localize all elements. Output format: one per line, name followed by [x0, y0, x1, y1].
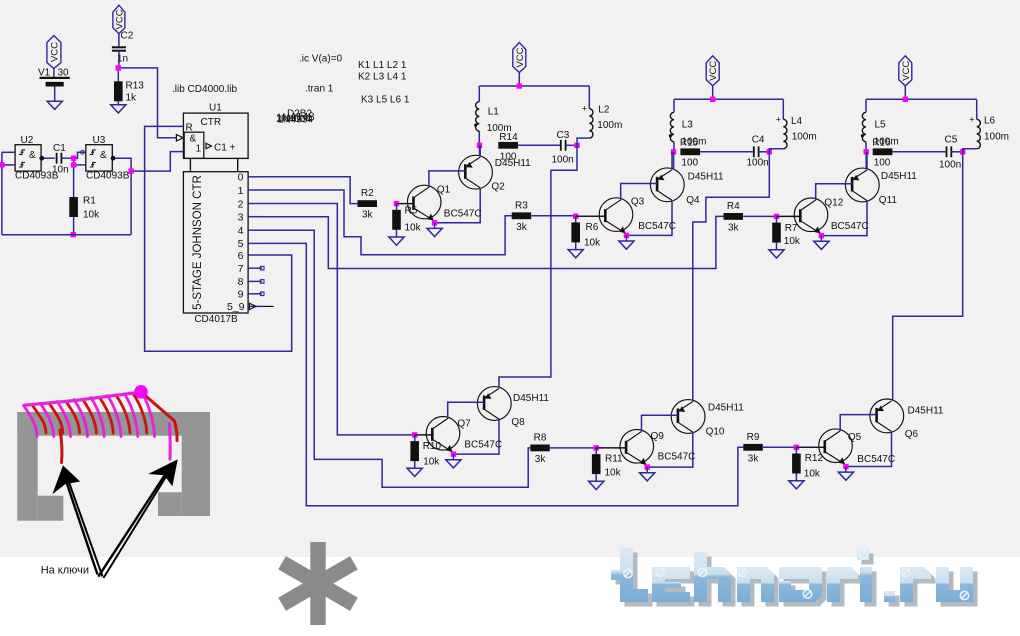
transformer core left foot: [38, 496, 64, 521]
svg-text:3k: 3k: [728, 222, 740, 233]
wire Q7 emitter stub: [452, 453, 454, 455]
resistor R15: [680, 148, 700, 155]
wire Q6 emitter pin: [891, 398, 893, 400]
pin 6 stub of U1: [248, 254, 262, 256]
svg-text:Q9: Q9: [651, 431, 665, 442]
svg-text:L3: L3: [682, 120, 694, 131]
inductor L3: [670, 112, 674, 141]
resistor R3 3k: [512, 212, 532, 219]
terminal square pin 7: [260, 266, 264, 270]
junction L5 bottom: [864, 149, 869, 154]
resistor R14: [498, 142, 518, 149]
wire to R11: [595, 448, 597, 454]
pin 7 stub of U1: [248, 267, 262, 269]
svg-text:D45H11: D45H11: [908, 406, 944, 417]
wire R1 to feedback wire: [73, 217, 75, 235]
wire Q5 emitter stub: [845, 465, 847, 467]
wire Q2 collector to Q1 emitter node: [435, 188, 481, 223]
transistor Q1 BC547C: [397, 185, 442, 221]
wire U3 output node right to clock gate: [131, 152, 184, 172]
winding red end wire: [60, 430, 62, 463]
svg-text:D45H11: D45H11: [881, 171, 917, 182]
resistor R5 10k: [392, 210, 401, 230]
svg-text:C4: C4: [752, 135, 765, 146]
svg-text:3k: 3k: [516, 222, 528, 233]
stubs between counter boxes: [189, 158, 191, 171]
wire pin5 to R9: [262, 243, 743, 505]
wire emitter node to ground: [820, 236, 822, 241]
wire R4 to node: [743, 215, 776, 217]
arrow to left winding end: [63, 471, 98, 575]
svg-text:D45H11: D45H11: [708, 402, 744, 413]
wire pin 5_9 stub: [262, 305, 274, 307]
wire base feed Q12: [777, 215, 801, 217]
capacitor stage 3: [946, 146, 948, 157]
wire emitter node to ground: [646, 467, 648, 472]
wire cap to junction: [759, 151, 770, 153]
svg-text:3k: 3k: [362, 210, 374, 221]
transistor Q9 BC547C: [596, 430, 653, 466]
wire Q6 collector to Q5 emitter node: [846, 432, 892, 467]
svg-text:1k: 1k: [126, 93, 138, 104]
svg-text:VCC: VCC: [708, 61, 719, 81]
svg-text:R9: R9: [747, 432, 760, 443]
wire base feed Q3: [576, 215, 606, 217]
svg-text:+: +: [582, 104, 587, 114]
svg-text:R16: R16: [872, 138, 891, 149]
junction base Q1: [394, 201, 399, 206]
svg-text:Q5: Q5: [848, 432, 862, 443]
svg-text:0: 0: [238, 172, 244, 184]
junction emitter Q9: [645, 464, 650, 469]
wire R6 to ground: [575, 242, 577, 249]
transformer core right column: [182, 412, 210, 516]
VCC flag above C2: [113, 5, 125, 34]
svg-text:3k: 3k: [748, 453, 760, 464]
phase dot L3: [669, 134, 672, 137]
pin 5_9 stub of U1: [248, 305, 262, 307]
wire Q3 emitter stub: [625, 234, 627, 236]
wire U2 output to C1: [41, 157, 55, 159]
wire VCC rail stage 3: [866, 98, 977, 100]
junction base Q12: [774, 214, 779, 219]
svg-text:VCC: VCC: [901, 61, 912, 81]
svg-text:10k: 10k: [605, 467, 622, 478]
junction emitter Q7: [451, 451, 456, 456]
wire R8 to node: [550, 447, 596, 449]
wire R5 to ground: [396, 230, 398, 237]
wire pin1 to R3: [262, 190, 512, 255]
junction emitter Q5: [843, 464, 848, 469]
bubble on U3 input1: [81, 150, 85, 154]
pin 1 stub of U1: [248, 189, 262, 191]
wire L1 junction to Q2 emitter: [479, 145, 481, 155]
inductor L5: [862, 112, 866, 141]
wire L4 to cap junction: [769, 149, 783, 152]
svg-text:9: 9: [238, 289, 244, 301]
wire emitter node to ground: [625, 235, 627, 240]
svg-text:R4: R4: [727, 201, 740, 212]
inductor L1: [476, 102, 480, 131]
resistor R10 10k: [410, 441, 419, 461]
resistor R8 3k: [530, 445, 550, 452]
wire base feed Q9: [596, 447, 626, 449]
resistor R16: [873, 148, 893, 155]
wire rail to L6: [976, 99, 978, 119]
svg-text:.lib CD4000.lib: .lib CD4000.lib: [172, 84, 237, 95]
svg-text:VCC: VCC: [515, 47, 526, 67]
junction cap right stage 2: [767, 149, 772, 154]
resistor R6 10k: [571, 222, 580, 242]
NAND gate U3 CD4093B: [86, 145, 113, 171]
svg-text:10n: 10n: [52, 165, 69, 176]
ground under V1: [47, 101, 62, 109]
wire R12 to ground: [795, 474, 797, 481]
wire L2 to cap junction: [577, 138, 589, 145]
resistor R7 10k: [772, 223, 781, 243]
terminal square pin 8: [260, 280, 264, 284]
svg-text:L2: L2: [598, 105, 610, 116]
VCC flag of V1: [47, 36, 61, 69]
wire Q11 collector to Q12 emitter node: [821, 201, 867, 236]
gray asterisk mark: [278, 542, 358, 625]
svg-text:C5: C5: [945, 135, 958, 146]
svg-text:100m: 100m: [597, 120, 622, 131]
svg-text:100n: 100n: [939, 160, 961, 171]
capacitor stage 1: [560, 140, 562, 151]
wire pin3 to R4: [262, 216, 724, 268]
svg-text:L1: L1: [488, 107, 500, 118]
wire VCC rail stage 1: [479, 85, 589, 87]
winding magenta arcs: [24, 392, 155, 437]
wire R7 to ground: [776, 243, 778, 250]
svg-text:&: &: [100, 150, 107, 161]
svg-text:Q1: Q1: [437, 185, 451, 196]
ground under Q1 emitter: [427, 228, 442, 236]
wire VCC rail stage 2: [674, 98, 783, 100]
watermark shadow: [616, 553, 978, 607]
pin 8 stub of U1: [248, 280, 262, 282]
pin 9 stub of U1: [248, 293, 262, 295]
resistor R1: [69, 197, 78, 217]
wire U3 output: [112, 158, 131, 171]
ground under R6: [568, 250, 583, 258]
junction emitter Q3: [624, 233, 629, 238]
wire L5 to junction: [865, 142, 867, 152]
junction emitter Q12: [819, 233, 824, 238]
junction U3 output node: [128, 168, 133, 173]
voltage source V1 battery symbol: [40, 77, 70, 79]
svg-text:100m: 100m: [792, 132, 817, 143]
watermark letters: [611, 548, 973, 602]
wire rail to L5: [865, 99, 867, 112]
ground under R13: [111, 105, 126, 113]
winding red lead from dot: [144, 395, 177, 441]
transformer core left column: [17, 412, 37, 521]
wire pin2 to Q7 base: [262, 204, 415, 435]
junction cap right stage 3: [960, 149, 965, 154]
svg-text:100: 100: [681, 157, 698, 168]
svg-text:1: 1: [238, 185, 244, 197]
wire R9 to node: [763, 446, 796, 448]
junction L3 bottom: [671, 149, 676, 154]
ground under R7: [769, 250, 784, 258]
svg-text:U3: U3: [93, 135, 106, 146]
junction R1 bottom: [71, 232, 76, 237]
wire cap to junction: [951, 151, 962, 153]
wire to R10: [414, 435, 416, 441]
wire C4 junction down to Q10 emitter: [693, 152, 770, 402]
wire Q10 emitter pin: [692, 399, 694, 401]
wire Q12 collector to Q11 base: [816, 184, 852, 200]
inductor L2: [589, 109, 593, 138]
wire battery to ground: [54, 87, 56, 102]
arrow to right winding end: [98, 464, 172, 577]
wire U3 output node down to feedback: [130, 171, 132, 235]
wire node to U3 input1 jog: [74, 152, 86, 158]
wire C3 junction down to Q8 emitter: [499, 145, 577, 387]
svg-text:BC547C: BC547C: [831, 221, 869, 232]
capacitor C2: [112, 46, 126, 48]
svg-text:+: +: [969, 114, 974, 124]
winding red arcs: [33, 394, 147, 433]
svg-text:.ic V(a)=0: .ic V(a)=0: [299, 54, 343, 65]
wire Q9 collector to Q10 base: [642, 415, 678, 431]
wire to R7: [776, 216, 778, 222]
transistor Q4 D45H11: [650, 168, 684, 202]
svg-text:4: 4: [238, 225, 244, 237]
counter U1 main box: [183, 172, 248, 313]
transistor Q5 BC547C: [796, 429, 852, 465]
wire Q7 collector to Q8 base: [448, 402, 484, 418]
svg-text:10k: 10k: [83, 210, 100, 221]
transistor Q11 D45H11: [845, 168, 879, 202]
svg-text:100m: 100m: [984, 132, 1009, 143]
wire C5 junction down to Q6 emitter: [893, 152, 963, 400]
wire rail to L2: [588, 86, 590, 109]
svg-text:U1: U1: [209, 103, 222, 114]
svg-text:CD4093B: CD4093B: [86, 171, 130, 182]
wire pin0 to R2: [262, 177, 358, 204]
wire VCC flag stem stage 3: [904, 86, 906, 100]
wire L6 to cap junction: [963, 149, 977, 152]
NAND gate U2 CD4093B: [15, 145, 41, 171]
transistor Q7 BC547C: [415, 417, 460, 453]
wire Q5 collector to Q6 base: [840, 415, 876, 431]
wire Q1 emitter stub: [434, 221, 436, 223]
svg-text:R3: R3: [515, 200, 528, 211]
svg-text:C1: C1: [53, 143, 66, 154]
junction base Q3: [573, 214, 578, 219]
wire node down to R1: [73, 158, 75, 197]
svg-text:На ключи: На ключи: [41, 565, 89, 577]
svg-text:D45H11: D45H11: [513, 393, 549, 404]
wire reset loop from pin6 to R input: [145, 126, 292, 351]
wire to R6: [575, 216, 577, 222]
svg-text:5: 5: [238, 238, 244, 250]
wire emitter node to ground: [845, 467, 847, 472]
junction base Q7: [412, 432, 417, 437]
transistor Q10 D45H11: [671, 400, 705, 434]
svg-text:VCC: VCC: [114, 9, 125, 29]
wire Q11 emitter pin: [866, 152, 868, 169]
svg-text:CD4017B: CD4017B: [194, 314, 238, 325]
wire R11 to ground: [595, 474, 597, 481]
svg-text:D45H11: D45H11: [495, 158, 531, 169]
pin 2 stub of U1: [248, 203, 262, 205]
junction VCC rail stage 2: [710, 97, 715, 102]
transistor Q6 D45H11: [870, 399, 904, 433]
junction cap right stage 1: [574, 143, 579, 148]
svg-text:&: &: [29, 150, 36, 161]
svg-text:R13: R13: [126, 81, 145, 92]
svg-text:30: 30: [58, 68, 70, 79]
resistor R4 3k: [724, 213, 744, 220]
wire L3 junction to Q4 emitter: [673, 152, 675, 170]
wire R10 to ground: [414, 461, 416, 468]
resistor R11 10k: [592, 454, 601, 474]
svg-text:K2 L3 L4 1: K2 L3 L4 1: [358, 72, 407, 83]
wire base feed Q7: [415, 434, 433, 436]
pin 4 stub of U1: [248, 229, 262, 231]
wire V1 flag to battery: [53, 69, 55, 78]
oscillator bottom feedback wire: [2, 234, 131, 236]
ground under Q9 emitter: [640, 473, 655, 481]
wire emitter node to ground: [434, 223, 436, 228]
wire Q3 collector to Q4 base: [621, 184, 657, 200]
resistor R9 3k: [743, 444, 763, 451]
svg-text:C3: C3: [557, 130, 570, 141]
wire R14 to cap: [518, 144, 561, 146]
svg-text:100n: 100n: [747, 158, 769, 169]
wire L3 to junction: [673, 142, 675, 152]
ground under Q5 emitter: [838, 472, 853, 480]
svg-text:CTR: CTR: [201, 117, 222, 128]
watermark screw icons: [624, 550, 969, 599]
wire Q4 emitter pin: [671, 152, 673, 169]
svg-text:V1: V1: [38, 68, 51, 79]
ground under Q7 emitter: [446, 460, 461, 468]
left feedback rail: [1, 152, 3, 234]
svg-text:R11: R11: [605, 454, 623, 465]
svg-text:L6: L6: [984, 116, 996, 127]
svg-text:5-STAGE JOHNSON CTR: 5-STAGE JOHNSON CTR: [192, 175, 204, 310]
svg-text:Q10: Q10: [706, 426, 725, 437]
wire Q2 emitter pin: [479, 145, 481, 155]
svg-text:1: 1: [196, 144, 202, 155]
svg-text:Q8: Q8: [511, 417, 525, 428]
svg-text:Q6: Q6: [905, 429, 919, 440]
svg-text:K3 L5 L6 1: K3 L5 L6 1: [361, 95, 410, 106]
wire node to clock input of U1: [118, 68, 176, 138]
svg-text:Q4: Q4: [686, 195, 700, 206]
wire Q9 emitter stub: [646, 466, 648, 468]
wire emitter node to ground: [452, 454, 454, 459]
wire L1 to junction: [478, 131, 480, 145]
wire U2 input stubs to left rail: [2, 151, 15, 153]
junction input2 node: [71, 162, 76, 167]
ground under R12: [789, 481, 804, 489]
VCC flag stage 3: [899, 56, 912, 86]
svg-text:1N4004: 1N4004: [276, 114, 311, 125]
svg-text:5_9: 5_9: [227, 301, 245, 313]
svg-text:100m: 100m: [487, 123, 512, 134]
capacitor stage 2: [753, 146, 755, 157]
svg-text:Q12: Q12: [824, 197, 843, 208]
svg-text:C2: C2: [121, 31, 134, 42]
svg-text:R2: R2: [361, 188, 374, 199]
junction left rail input2: [0, 162, 5, 167]
wire to R12: [795, 447, 797, 453]
transistor Q12 BC547C: [777, 198, 828, 234]
svg-text:U2: U2: [21, 135, 34, 146]
svg-text:L4: L4: [791, 116, 803, 127]
capacitor C1: [56, 153, 58, 164]
VCC flag stage 2: [706, 56, 719, 86]
resistor R13 1k: [117, 68, 119, 81]
winding magenta return wire: [24, 392, 141, 405]
phase dot L1: [474, 124, 477, 127]
wire C2 to node: [118, 51, 120, 68]
svg-text:Q11: Q11: [879, 195, 898, 206]
wire cap to junction: [566, 144, 577, 146]
svg-text:R15: R15: [680, 138, 699, 149]
counter U1 CD4017B upper box: [183, 113, 248, 158]
svg-text:Q2: Q2: [491, 182, 505, 193]
svg-text:10k: 10k: [804, 469, 821, 480]
ground under Q3 emitter: [619, 241, 634, 249]
inductor L6: [977, 119, 981, 148]
ground under R5: [389, 237, 404, 245]
transformer core right foot: [158, 492, 182, 516]
resistor R12 10k: [792, 454, 801, 474]
wire Q4 collector to Q3 emitter node: [626, 201, 672, 236]
svg-text:10k: 10k: [784, 236, 801, 247]
svg-text:BC547C: BC547C: [857, 454, 895, 465]
wire base feed Q1: [397, 203, 414, 205]
svg-text:3: 3: [238, 212, 244, 224]
clock gate inner box: [184, 132, 204, 158]
svg-text:+: +: [776, 114, 781, 124]
svg-text:R6: R6: [586, 222, 599, 233]
wire Q8 collector to Q7 emitter node: [453, 419, 499, 454]
svg-text:BC547C: BC547C: [658, 451, 696, 462]
wire C1 to node: [61, 157, 73, 159]
wire R15 to cap: [700, 151, 754, 153]
winding start dot: [134, 385, 148, 399]
ground under R10: [407, 468, 422, 476]
transformer core gray top bar: [17, 412, 210, 436]
svg-text:R5: R5: [405, 206, 418, 217]
svg-text:100n: 100n: [552, 155, 574, 166]
svg-text:BC547C: BC547C: [444, 209, 482, 220]
pin 5 stub of U1: [248, 242, 262, 244]
junction VCC rail stage 1: [517, 83, 522, 88]
wire rail to L3: [673, 99, 675, 112]
svg-text:10k: 10k: [584, 238, 601, 249]
svg-text:100: 100: [874, 157, 891, 168]
junction VCC rail stage 3: [903, 97, 908, 102]
junction base Q9: [594, 445, 599, 450]
svg-text:C1 +: C1 +: [214, 143, 236, 154]
wire Q10 collector to Q9 emitter node: [647, 432, 693, 467]
wire VCC to C2: [118, 34, 120, 47]
wire VCC flag stem stage 1: [518, 72, 520, 86]
clock input marker: [176, 135, 183, 142]
terminal square pin 9: [260, 292, 264, 296]
svg-text:2: 2: [238, 198, 244, 210]
svg-text:BC547C: BC547C: [464, 439, 502, 450]
